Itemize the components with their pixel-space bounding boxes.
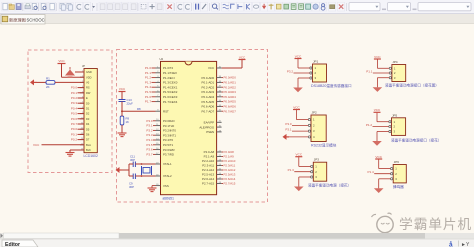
svg-text:V0: V0: [86, 81, 90, 85]
svg-text:P2.6-A14: P2.6-A14: [202, 177, 214, 181]
svg-text:P0.2/AD2: P0.2/AD2: [224, 85, 237, 89]
svg-text:U2: U2: [160, 57, 164, 61]
svg-text:VDD: VDD: [86, 75, 92, 79]
svg-text:P3.6: P3.6: [146, 148, 153, 152]
svg-text:JP2: JP2: [312, 111, 318, 115]
svg-text:30P: 30P: [130, 158, 135, 162]
svg-text:P3.1: P3.1: [285, 128, 292, 132]
svg-text:P1.2: P1.2: [366, 123, 373, 127]
svg-text:P2.4-A12: P2.4-A12: [202, 168, 214, 172]
svg-text:RS: RS: [86, 86, 90, 90]
svg-text:P1.1: P1.1: [145, 71, 152, 75]
svg-text:P0.5-AD5: P0.5-AD5: [202, 100, 215, 104]
svg-text:P0.5: P0.5: [71, 112, 78, 116]
svg-text:Editor: Editor: [5, 242, 20, 247]
svg-text:P0.2: P0.2: [71, 138, 78, 142]
svg-text:R1: R1: [46, 77, 50, 81]
svg-text:JP1: JP1: [313, 60, 319, 64]
svg-text:P0.0/AD0: P0.0/AD0: [224, 76, 237, 80]
svg-text:P0.2-AD2: P0.2-AD2: [202, 85, 215, 89]
svg-text:P1.4: P1.4: [145, 85, 152, 89]
svg-text:P2.4/A12: P2.4/A12: [224, 168, 236, 172]
svg-text:P1.1: P1.1: [366, 70, 373, 74]
svg-text:P3.2/INT0: P3.2/INT0: [163, 129, 176, 133]
svg-text:P2.7/A15: P2.7/A15: [224, 182, 236, 186]
svg-text:P0.3: P0.3: [71, 101, 78, 105]
svg-text:►Y: ►Y: [461, 242, 470, 247]
svg-text:P2.1/A9: P2.1/A9: [224, 155, 235, 159]
svg-text:P2.0-A8: P2.0-A8: [204, 150, 215, 154]
svg-text:P3.2: P3.2: [287, 70, 294, 74]
svg-text:P3.0: P3.0: [285, 122, 292, 126]
svg-text:JP4: JP4: [392, 60, 398, 64]
svg-text:P0.7-AD7: P0.7-AD7: [202, 109, 215, 113]
svg-text:P1.3: P1.3: [145, 80, 152, 84]
svg-text:P3.7/RD: P3.7/RD: [163, 153, 174, 157]
svg-text:P2.5-A13: P2.5-A13: [202, 173, 214, 177]
svg-text:VCC: VCC: [208, 66, 214, 70]
svg-text:å: å: [449, 240, 453, 247]
svg-text:at89s51: at89s51: [163, 196, 175, 200]
svg-text:VCC: VCC: [374, 108, 381, 112]
svg-text:DS18B20温度传感器接口: DS18B20温度传感器接口: [311, 83, 352, 88]
svg-text:P0.0: P0.0: [71, 86, 78, 90]
svg-text:SCHDOC: SCHDOC: [27, 18, 45, 23]
svg-text:P1.3: P1.3: [288, 168, 295, 172]
svg-text:P1.5/CEX2: P1.5/CEX2: [163, 90, 178, 94]
svg-text:新原理图: 新原理图: [9, 17, 26, 24]
svg-text:P3.3: P3.3: [146, 133, 153, 137]
svg-text:P3.3/INT1: P3.3/INT1: [163, 133, 176, 137]
svg-text:D7: D7: [86, 138, 90, 142]
svg-text:VCC: VCC: [374, 55, 381, 59]
svg-text:P0.1-AD1: P0.1-AD1: [202, 81, 215, 85]
svg-text:液晶平衡驱动电源接口（接花）: 液晶平衡驱动电源接口（接花）: [391, 138, 441, 143]
svg-text:P3.0: P3.0: [146, 119, 153, 123]
svg-text:P3.4: P3.4: [146, 138, 153, 142]
svg-text:VCC: VCC: [58, 59, 65, 63]
svg-text:P0.6-AD6: P0.6-AD6: [202, 105, 215, 109]
svg-text:P3.2: P3.2: [146, 128, 153, 132]
svg-text:D6: D6: [86, 133, 90, 137]
svg-text:RST: RST: [163, 109, 169, 113]
svg-text:R8: R8: [137, 107, 141, 111]
svg-text:EA/VPP: EA/VPP: [204, 121, 215, 125]
svg-text:P3.0RxD: P3.0RxD: [163, 119, 175, 123]
svg-text:P2.5/A13: P2.5/A13: [224, 173, 236, 177]
svg-text:E: E: [86, 96, 88, 100]
svg-text:P2.0/A8: P2.0/A8: [224, 150, 235, 154]
svg-text:P0.6/AD6: P0.6/AD6: [224, 105, 237, 109]
svg-text:P3.1TxD: P3.1TxD: [163, 124, 174, 128]
svg-text:P1.3/CEX0: P1.3/CEX0: [163, 81, 178, 85]
svg-text:BLK: BLK: [86, 148, 91, 152]
svg-text:JP6: JP6: [394, 160, 400, 164]
svg-text:P0.7: P0.7: [71, 122, 78, 126]
svg-text:2K: 2K: [46, 85, 50, 89]
svg-text:D4: D4: [86, 122, 90, 126]
svg-text:P1.5: P1.5: [145, 90, 152, 94]
svg-text:P3.4/T0: P3.4/T0: [163, 138, 174, 142]
svg-text:P0.6: P0.6: [71, 117, 78, 121]
svg-text:P2.2-A10: P2.2-A10: [202, 159, 214, 163]
svg-text:P3.1: P3.1: [146, 124, 153, 128]
svg-text:P1.2: P1.2: [145, 76, 152, 80]
svg-text:蜂鸣器: 蜂鸣器: [393, 184, 404, 189]
svg-text:VCC: VCC: [296, 153, 303, 157]
svg-text:P0.4/AD4: P0.4/AD4: [224, 95, 237, 99]
svg-text:P1.0/T2: P1.0/T2: [163, 66, 174, 70]
svg-text:P0.4: P0.4: [71, 106, 78, 110]
svg-text:P1.7: P1.7: [145, 100, 152, 104]
svg-text:JP: JP: [82, 64, 85, 68]
svg-text:液晶平衡驱动电源接口（接花图）: 液晶平衡驱动电源接口（接花图）: [385, 83, 439, 88]
svg-text:P0.3/AD3: P0.3/AD3: [224, 90, 237, 94]
svg-text:P1.4: P1.4: [368, 170, 375, 174]
svg-text:P1.2/ECI: P1.2/ECI: [163, 76, 175, 80]
svg-text:RW: RW: [86, 91, 91, 95]
svg-text:VCC: VCC: [375, 155, 382, 159]
svg-text:22uF: 22uF: [127, 102, 134, 106]
svg-text:ALE/PROG: ALE/PROG: [199, 125, 215, 129]
svg-text:D3: D3: [86, 117, 90, 121]
svg-text:P0.5/AD5: P0.5/AD5: [224, 100, 237, 104]
svg-text:P3.7: P3.7: [146, 152, 153, 156]
svg-text:D1: D1: [86, 107, 90, 111]
svg-text:XTAL1: XTAL1: [163, 162, 172, 166]
svg-text:D2: D2: [86, 112, 90, 116]
svg-text:P2.6/A14: P2.6/A14: [224, 177, 236, 181]
svg-text:GND: GND: [86, 70, 92, 74]
svg-text:P0.1: P0.1: [71, 132, 78, 136]
svg-text:P1.6/CEX3: P1.6/CEX3: [163, 95, 178, 99]
svg-text:P1.7/CEX4: P1.7/CEX4: [163, 100, 178, 104]
svg-text:P0.2: P0.2: [71, 96, 78, 100]
svg-text:P2.3-A11: P2.3-A11: [202, 164, 214, 168]
svg-text:RS232显示模块: RS232显示模块: [311, 143, 337, 148]
svg-text:P0.1/AD1: P0.1/AD1: [224, 81, 237, 85]
svg-text:VSS: VSS: [163, 184, 169, 188]
svg-text:PSEN: PSEN: [206, 130, 214, 134]
svg-text:P2.2/A10: P2.2/A10: [224, 159, 236, 163]
svg-text:P1.0: P1.0: [145, 66, 152, 70]
svg-text:VCC: VCC: [239, 55, 246, 59]
svg-text:LCD1602: LCD1602: [84, 154, 98, 158]
svg-text:学霸单片机: 学霸单片机: [399, 217, 472, 232]
svg-text:P0.0: P0.0: [71, 127, 78, 131]
svg-text:BLA: BLA: [86, 143, 91, 147]
svg-text:XTAL2: XTAL2: [163, 174, 172, 178]
svg-text:P0.1: P0.1: [71, 91, 78, 95]
svg-text:P0.3-AD3: P0.3-AD3: [202, 90, 215, 94]
svg-text:D0: D0: [86, 101, 90, 105]
svg-text:JP5: JP5: [392, 113, 398, 117]
svg-text:P1.1/T2EX: P1.1/T2EX: [163, 71, 177, 75]
svg-text:P3.5/T1: P3.5/T1: [163, 143, 174, 147]
svg-text:P3.6/WR: P3.6/WR: [163, 148, 175, 152]
svg-text:30P: 30P: [129, 185, 134, 189]
svg-text:P1.4/CEX1: P1.4/CEX1: [163, 85, 178, 89]
svg-text:VCC: VCC: [295, 54, 302, 58]
svg-text:P0.0-AD0: P0.0-AD0: [202, 76, 215, 80]
svg-text:JP3: JP3: [314, 158, 320, 162]
svg-text:VCC: VCC: [293, 105, 300, 109]
svg-text:VCC: VCC: [119, 87, 126, 91]
svg-text:P2.7-A15: P2.7-A15: [202, 182, 214, 186]
svg-text:D5: D5: [86, 127, 90, 131]
svg-text:P3.5: P3.5: [146, 143, 153, 147]
svg-text:P2.1-A9: P2.1-A9: [204, 155, 215, 159]
svg-text:P0.7/AD7: P0.7/AD7: [224, 109, 237, 113]
svg-text:VCC: VCC: [33, 143, 40, 147]
svg-text:P2.3/A11: P2.3/A11: [224, 164, 236, 168]
svg-text:1K: 1K: [126, 120, 130, 124]
svg-text:P1.6: P1.6: [145, 95, 152, 99]
svg-text:液晶平衡驱动电源（接花）: 液晶平衡驱动电源（接花）: [308, 183, 351, 188]
svg-text:P0.4-AD4: P0.4-AD4: [202, 95, 215, 99]
